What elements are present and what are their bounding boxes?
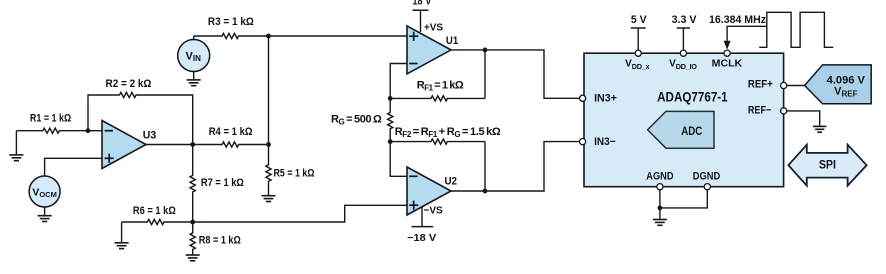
svg-text:R5 = 1 kΩ: R5 = 1 kΩ [274, 167, 315, 179]
wire VOCM to U3 non-inverting input [45, 158, 102, 176]
pin VDD_x [635, 50, 641, 56]
pin VDD_IO [680, 50, 686, 56]
resistor R4 [193, 142, 269, 147]
resistor R1 [16, 128, 88, 133]
svg-text:R4 = 1 kΩ: R4 = 1 kΩ [209, 126, 253, 138]
svg-text:U3: U3 [143, 130, 157, 142]
ground (R5) [262, 195, 276, 202]
svg-text:−18 V: −18 V [407, 232, 436, 244]
node E (R6/R7/R8 junction) [190, 220, 195, 225]
voltage reference 4.096V box [805, 65, 872, 104]
node I (U2 output junction) [483, 189, 488, 194]
wire VIN riser to R3 [193, 36, 195, 40]
svg-text:DGND: DGND [693, 171, 720, 183]
wire RF1 to U1 output node [484, 50, 486, 99]
svg-text:3.3 V: 3.3 V [672, 14, 698, 26]
resistor RG [388, 98, 393, 141]
svg-text:R2 = 2 kΩ: R2 = 2 kΩ [106, 78, 152, 90]
pin REF+ [781, 82, 787, 88]
pin DGND [704, 184, 710, 190]
wire DGND to ground [660, 190, 707, 208]
wire node B to U1 non-inverting input [269, 35, 408, 37]
wire U1 inverting input to RF1 node [390, 64, 407, 99]
svg-text:RF2 = RF1 + RG = 1.5 kΩ: RF2 = RF1 + RG = 1.5 kΩ [395, 126, 501, 139]
pin AGND [657, 184, 663, 190]
node F (RF1/RG junction) [388, 96, 393, 101]
resistor R6 [122, 219, 193, 224]
node J (AGND/DGND junction) [658, 206, 663, 211]
op-amp U2 inverting input sign [409, 175, 417, 177]
source VOCM [29, 176, 60, 207]
resistor RF1 [390, 96, 485, 101]
node A (U3 inverting input junction) [86, 128, 91, 133]
wire AGND to ground [659, 190, 661, 208]
resistor R2 (feedback) [88, 92, 193, 144]
clock waveform [759, 12, 833, 47]
svg-text:R8 = 1 kΩ: R8 = 1 kΩ [199, 234, 241, 246]
op-amp U1 [407, 26, 451, 74]
supply bar +18V (U1) [413, 10, 429, 32]
node D (R4/R5 junction) [266, 142, 271, 147]
op-amp U2 [407, 167, 451, 215]
ground (VIN) [187, 72, 201, 86]
svg-text:18 V: 18 V [412, 0, 432, 7]
ground (R8) [186, 254, 200, 260]
svg-text:5 V: 5 V [631, 14, 647, 26]
svg-text:U2: U2 [445, 175, 458, 187]
resistor R7 [190, 145, 195, 223]
svg-text:ADC: ADC [681, 124, 702, 138]
wire MCLK from clock waveform [727, 26, 767, 42]
node H (U1 output junction) [483, 48, 488, 53]
wire R1 junction to U3 inverting input [88, 130, 102, 132]
wire centre column [268, 36, 270, 145]
wire RF2 to U2 output node [484, 142, 486, 191]
resistor RF2 [390, 139, 485, 144]
svg-text:16.384 MHz: 16.384 MHz [709, 14, 766, 26]
svg-text:AGND: AGND [646, 171, 673, 183]
ADC converter pentagon [648, 111, 714, 148]
svg-text:IN3−: IN3− [594, 136, 616, 148]
svg-text:R3 = 1 kΩ: R3 = 1 kΩ [208, 16, 254, 28]
supply bar 3.3V [677, 28, 690, 50]
wire bottom rail to U2 non-inverting input [193, 205, 407, 222]
supply bar 5V [631, 28, 646, 50]
svg-text:−VS: −VS [424, 204, 443, 216]
svg-text:MCLK: MCLK [712, 58, 743, 69]
supply bar -18V (U2) [412, 207, 434, 227]
pin IN3- [580, 139, 586, 145]
op-amp U2 non-inverting input sign [409, 201, 418, 210]
svg-text:R6 = 1 kΩ: R6 = 1 kΩ [133, 205, 176, 217]
source VIN [178, 40, 210, 72]
ground (R6) [115, 222, 129, 249]
svg-text:ADAQ7767-1: ADAQ7767-1 [657, 89, 728, 105]
svg-text:U1: U1 [446, 35, 458, 47]
pin IN3+ [580, 95, 586, 101]
svg-text:RF1 = 1 kΩ: RF1 = 1 kΩ [417, 79, 464, 92]
svg-text:R7 = 1 kΩ: R7 = 1 kΩ [201, 177, 244, 189]
op-amp U1 inverting input sign [409, 63, 417, 65]
resistor R5 [266, 145, 271, 196]
op-amp U3 non-inverting input sign [105, 154, 114, 163]
block ADAQ7767-1 [584, 53, 784, 187]
svg-text:+VS: +VS [424, 22, 443, 34]
pin REF- [781, 108, 787, 114]
ground (AGND/DGND) [653, 208, 667, 225]
wire REF- to ground [787, 111, 820, 126]
op-amp U3 [102, 121, 146, 169]
node B (R3/U1 junction) [266, 34, 271, 39]
ground (R1 input) [9, 131, 23, 161]
svg-text:IN3+: IN3+ [594, 92, 617, 104]
resistor R3 [194, 33, 269, 38]
svg-text:R1 = 1 kΩ: R1 = 1 kΩ [30, 112, 71, 124]
wire U2 output to IN3- [451, 142, 580, 191]
resistor R8 [190, 222, 195, 254]
svg-text:SPI: SPI [819, 159, 836, 171]
op-amp U1 non-inverting input sign [409, 32, 418, 41]
MCLK arrowhead [724, 41, 731, 50]
ground (VOCM) [38, 207, 52, 222]
op-amp U3 inverting input sign [105, 130, 113, 132]
ground (REF-) [813, 126, 826, 132]
svg-text:4.096 V: 4.096 V [827, 74, 866, 86]
svg-text:RG = 500 Ω: RG = 500 Ω [331, 113, 382, 126]
svg-text:REF+: REF+ [748, 78, 773, 90]
pin MCLK [724, 50, 730, 56]
svg-text:REF−: REF− [748, 105, 771, 117]
wire U2 inverting input to RF2 node [390, 142, 407, 177]
SPI bus double arrow [788, 145, 866, 186]
wire REF+ to VREF source [787, 85, 805, 87]
wire U1 output to IN3+ [451, 50, 580, 98]
node C (U3 output junction) [190, 142, 195, 147]
node G (RG/RF2 junction) [388, 139, 393, 144]
wire U3 output [146, 144, 193, 146]
